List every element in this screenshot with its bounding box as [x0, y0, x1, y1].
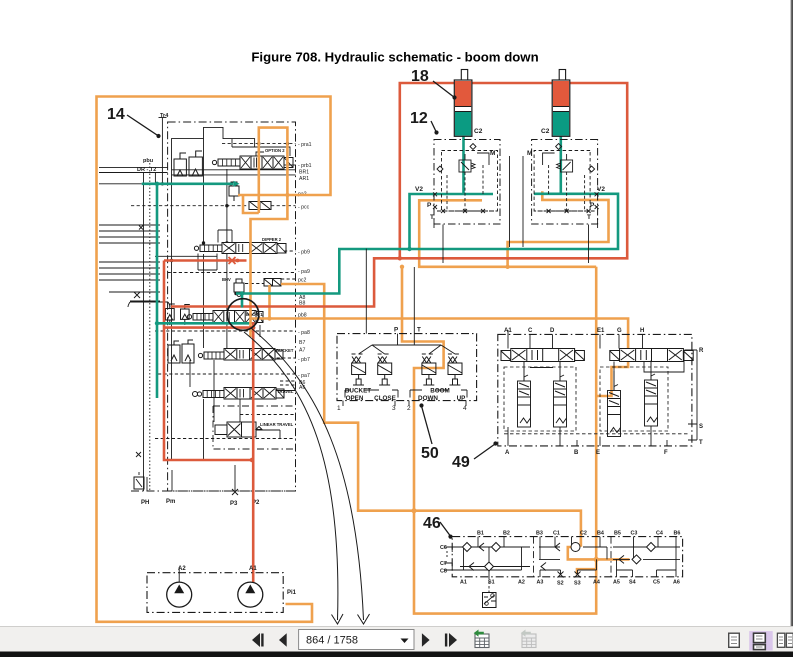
svg-text:F: F: [664, 450, 668, 456]
svg-text:B: B: [574, 450, 579, 456]
svg-text:M: M: [490, 150, 495, 157]
block 46 border: [452, 537, 682, 577]
valve pcc solenoid: [249, 202, 271, 210]
plug X on red stub: [229, 257, 236, 264]
left ports C6 C7 C8: [444, 547, 464, 570]
svg-text:A1: A1: [460, 580, 467, 586]
port X mark P3: [232, 489, 238, 495]
wire pc2 drop: [268, 285, 271, 319]
svg-text:Pm: Pm: [166, 499, 175, 505]
nav first: [252, 633, 287, 647]
svg-text:A2: A2: [178, 566, 186, 572]
valve BUCKET spool: [198, 349, 283, 361]
svg-text:C7: C7: [440, 561, 447, 567]
S1 drain icon: [488, 577, 490, 593]
svg-text:- pra1: - pra1: [298, 142, 312, 148]
svg-text:R: R: [699, 348, 704, 354]
counterbalance valve block (left cylinder): [433, 140, 500, 229]
wire S3 stub: [577, 569, 596, 574]
solenoid spool right: [610, 349, 693, 362]
svg-text:S: S: [699, 424, 703, 430]
svg-text:BHV: BHV: [222, 277, 231, 282]
valve BHV: [234, 279, 244, 297]
svg-text:14: 14: [107, 106, 125, 123]
right window edge: [790, 0, 791, 626]
svg-text:AR1: AR1: [299, 176, 309, 182]
wire boom valve A-port: [157, 322, 249, 325]
block 46 labels top: [440, 531, 680, 575]
svg-text:DIPPER 2: DIPPER 2: [262, 237, 282, 242]
cartridge valve 3: [608, 371, 621, 437]
svg-text:A6: A6: [673, 580, 680, 586]
check valves: [463, 543, 656, 572]
svg-text:A2: A2: [518, 580, 525, 586]
block 49 labels: [504, 328, 704, 456]
svg-text:C3: C3: [631, 531, 638, 537]
svg-text:S2: S2: [557, 581, 564, 587]
valve pc2 solenoid: [264, 279, 281, 287]
svg-text:- pb7: - pb7: [298, 357, 310, 363]
wire cyl1 V2: [410, 194, 494, 249]
bottom border labels line: [131, 490, 296, 492]
svg-text:BOOM 1: BOOM 1: [246, 312, 263, 317]
svg-text:C8: C8: [440, 569, 447, 575]
tank label verticals: DR, pbu(dotted), T2, Tr4: [144, 118, 167, 492]
wire red stub with plug: [164, 259, 247, 262]
svg-text:- pa8: - pa8: [298, 330, 310, 336]
svg-text:C6: C6: [440, 545, 447, 551]
view facing icon: [777, 633, 784, 647]
wire main supply loop: block50 P, bottom run, riser to cylinders: [402, 267, 596, 614]
svg-text:A5: A5: [613, 580, 620, 586]
svg-text:50: 50: [421, 445, 439, 462]
arrows: [469, 543, 624, 571]
svg-text:DOWN: DOWN: [418, 395, 438, 402]
wire boom valve left link: [163, 326, 253, 329]
cylinder area labels: [415, 128, 605, 221]
svg-text:B6: B6: [674, 531, 681, 537]
dashed port lines: [131, 144, 296, 439]
svg-text:BUCKET: BUCKET: [345, 388, 371, 395]
wire cyl1 rod line C2: [462, 136, 465, 194]
svg-text:C4: C4: [656, 531, 663, 537]
main block border: [168, 122, 296, 491]
view single page icon: [729, 633, 740, 647]
svg-text:C1: C1: [553, 531, 560, 537]
valve pa2 source: [229, 182, 239, 201]
wire A8 to cylinder V2 loop: [236, 194, 618, 294]
wire pa2-outer-frame to pump Pi1: [97, 97, 331, 622]
junction dots on dashed lines: [161, 142, 289, 295]
dashed sub rects and bus: [504, 367, 688, 434]
pump A1: [238, 582, 263, 607]
wire pb8 line to block 49: [251, 319, 629, 397]
svg-text:E1: E1: [597, 328, 605, 334]
svg-text:A3: A3: [537, 580, 544, 586]
svg-text:UP: UP: [457, 395, 466, 402]
wire tank line T2: [142, 183, 234, 186]
block 50 border: [337, 334, 477, 401]
wire cyl1 P line: [419, 200, 596, 266]
svg-text:A: A: [505, 450, 510, 456]
R S T lines: [530, 350, 697, 440]
valve BOOM 1 spool: [187, 311, 263, 324]
svg-text:Figure 708. Hydraulic schemati: Figure 708. Hydraulic schematic - boom d…: [251, 50, 538, 65]
svg-text:pbu: pbu: [143, 158, 153, 164]
svg-text:S4: S4: [629, 580, 636, 586]
pilot valve BOOM UP: [448, 354, 462, 385]
svg-text:T: T: [699, 440, 703, 446]
wire cyl2 rod line C2: [559, 136, 562, 194]
svg-text:49: 49: [452, 454, 470, 471]
svg-text:BR1: BR1: [299, 170, 309, 176]
wire boom valve to pumps: [252, 322, 255, 583]
labels: [345, 327, 466, 403]
page box: [299, 630, 414, 650]
magnifier leader curves: [244, 328, 370, 624]
orange junction dots: [267, 193, 599, 562]
block 49 border: [498, 334, 692, 446]
svg-text:- pcc: - pcc: [298, 205, 310, 211]
svg-text:- prb1: - prb1: [298, 163, 312, 169]
counterbalance valve block (right cylinder): [532, 140, 599, 229]
svg-text:Pi1: Pi1: [287, 590, 297, 596]
long solid port lines prb1 BR1 AR1: [172, 165, 296, 439]
svg-text:E: E: [596, 450, 600, 456]
svg-text:T: T: [417, 327, 421, 334]
cylinder rod left: [461, 70, 467, 81]
top port stubs: [508, 330, 667, 446]
svg-text:S3: S3: [574, 581, 581, 587]
pilot valve BUCKET OPEN: [352, 354, 366, 385]
cylinder 18 left: [454, 70, 472, 137]
valve BUCKET compensators: [168, 340, 194, 363]
svg-text:4: 4: [463, 405, 467, 412]
svg-text:- pa7: - pa7: [298, 373, 310, 379]
bus lines: [460, 537, 680, 577]
svg-text:B2: B2: [503, 531, 510, 537]
svg-text:TRAVEL: TRAVEL: [277, 389, 294, 394]
cartridge valve 1: [518, 362, 531, 428]
cartridge valve 4: [645, 361, 658, 427]
svg-text:V2: V2: [415, 186, 423, 193]
left port plug marks: [128, 226, 170, 458]
svg-text:T: T: [587, 214, 591, 221]
cylinder right: [552, 70, 570, 137]
svg-text:OPEN: OPEN: [346, 395, 364, 402]
top structure above option2 valve: [147, 127, 290, 491]
svg-text:864 / 1758: 864 / 1758: [306, 635, 358, 647]
icon table disabled: [521, 630, 536, 648]
pump block border: [147, 573, 283, 613]
svg-text:A1: A1: [249, 566, 257, 572]
bottom brackets: [343, 390, 467, 406]
svg-text:M: M: [527, 150, 532, 157]
pump A2: [167, 582, 192, 607]
bottom border of main block labels: [141, 499, 260, 507]
inner sub-block linear travel border: [213, 406, 296, 449]
svg-text:46: 46: [423, 515, 441, 532]
nav next: [422, 633, 457, 647]
svg-text:P: P: [590, 202, 595, 209]
svg-text:LINEAR TRAVEL: LINEAR TRAVEL: [260, 422, 294, 427]
svg-text:18: 18: [411, 68, 429, 85]
svg-text:A4: A4: [593, 580, 600, 586]
x plugs: [558, 572, 581, 578]
wire block46 feed from block50 area: [281, 284, 581, 547]
wire option2 loop down to dipper/boom feed: [251, 128, 288, 337]
pilot valve BOOM DOWN: [422, 354, 436, 385]
svg-text:B7: B7: [299, 340, 305, 346]
svg-text:S1: S1: [488, 580, 495, 586]
svg-text:D: D: [550, 328, 555, 334]
svg-text:- pb9: - pb9: [298, 250, 310, 256]
magnifier circle: [227, 299, 259, 331]
P T entries: [359, 249, 455, 354]
svg-text:C2: C2: [580, 531, 587, 537]
svg-text:B5: B5: [614, 531, 621, 537]
wire pcc jog: [243, 195, 259, 213]
svg-text:H: H: [640, 328, 644, 334]
svg-text:T: T: [430, 214, 434, 221]
svg-text:DR - T2: DR - T2: [137, 167, 156, 173]
svg-text:C2: C2: [474, 128, 483, 135]
svg-text:A1: A1: [504, 328, 512, 334]
svg-text:A7: A7: [299, 348, 305, 354]
drain lines below blocks: [443, 156, 589, 263]
solenoid spool left: [501, 349, 584, 362]
wire cyl2 P return: [508, 191, 609, 266]
port labels right side: [298, 142, 312, 391]
option2 pressure reducing valves: [174, 151, 202, 176]
valve DIPPER 2 spool: [155, 230, 286, 270]
cartridge valve 2: [554, 362, 567, 428]
wire A8 drop into boom valve: [241, 294, 244, 308]
row labels tiny: [222, 148, 294, 427]
svg-text:C2: C2: [541, 128, 550, 135]
cylinder rod right: [559, 70, 565, 81]
svg-text:P: P: [427, 202, 432, 209]
valve PH relief: [134, 477, 144, 489]
svg-text:C5: C5: [653, 580, 660, 586]
svg-text:BOOM: BOOM: [430, 388, 450, 395]
pilot valve BUCKET CLOSE: [378, 354, 392, 385]
left column small labels: [137, 113, 169, 173]
svg-text:Tr4: Tr4: [160, 113, 169, 119]
svg-text:BUCKET: BUCKET: [276, 348, 294, 353]
op valve OPTION 2 spool: [212, 152, 293, 169]
svg-text:pc2: pc2: [298, 278, 306, 284]
svg-text:PH: PH: [141, 500, 149, 506]
svg-text:B3: B3: [536, 531, 543, 537]
left port stubs: [99, 167, 168, 301]
valve LINEAR TRAVEL spool: [215, 422, 262, 437]
valve TRAVEL spool: [193, 388, 285, 400]
wire red drain left: [164, 261, 252, 461]
svg-text:3: 3: [392, 405, 396, 412]
svg-text:B4: B4: [597, 531, 604, 537]
svg-text:C: C: [528, 328, 533, 334]
svg-text:CLOSE: CLOSE: [374, 395, 396, 402]
svg-text:V2: V2: [597, 186, 605, 193]
wire B8 to cylinder ring: [171, 83, 627, 307]
svg-text:2: 2: [407, 405, 411, 412]
valve BOOM 1 compensators: [166, 304, 190, 325]
svg-text:- pa9: - pa9: [298, 269, 310, 275]
svg-text:P: P: [394, 327, 398, 334]
icon table with green arrow: [474, 630, 489, 648]
svg-text:P3: P3: [230, 501, 238, 507]
svg-text:B1: B1: [477, 531, 484, 537]
svg-text:OPTION 2: OPTION 2: [265, 148, 285, 153]
view continuous icon selected: [749, 631, 773, 650]
wire C2 shuttle to S3: [568, 547, 630, 559]
svg-text:12: 12: [410, 110, 428, 127]
svg-text:1: 1: [337, 405, 341, 412]
pump labels: [178, 566, 297, 596]
svg-text:G: G: [617, 328, 622, 334]
